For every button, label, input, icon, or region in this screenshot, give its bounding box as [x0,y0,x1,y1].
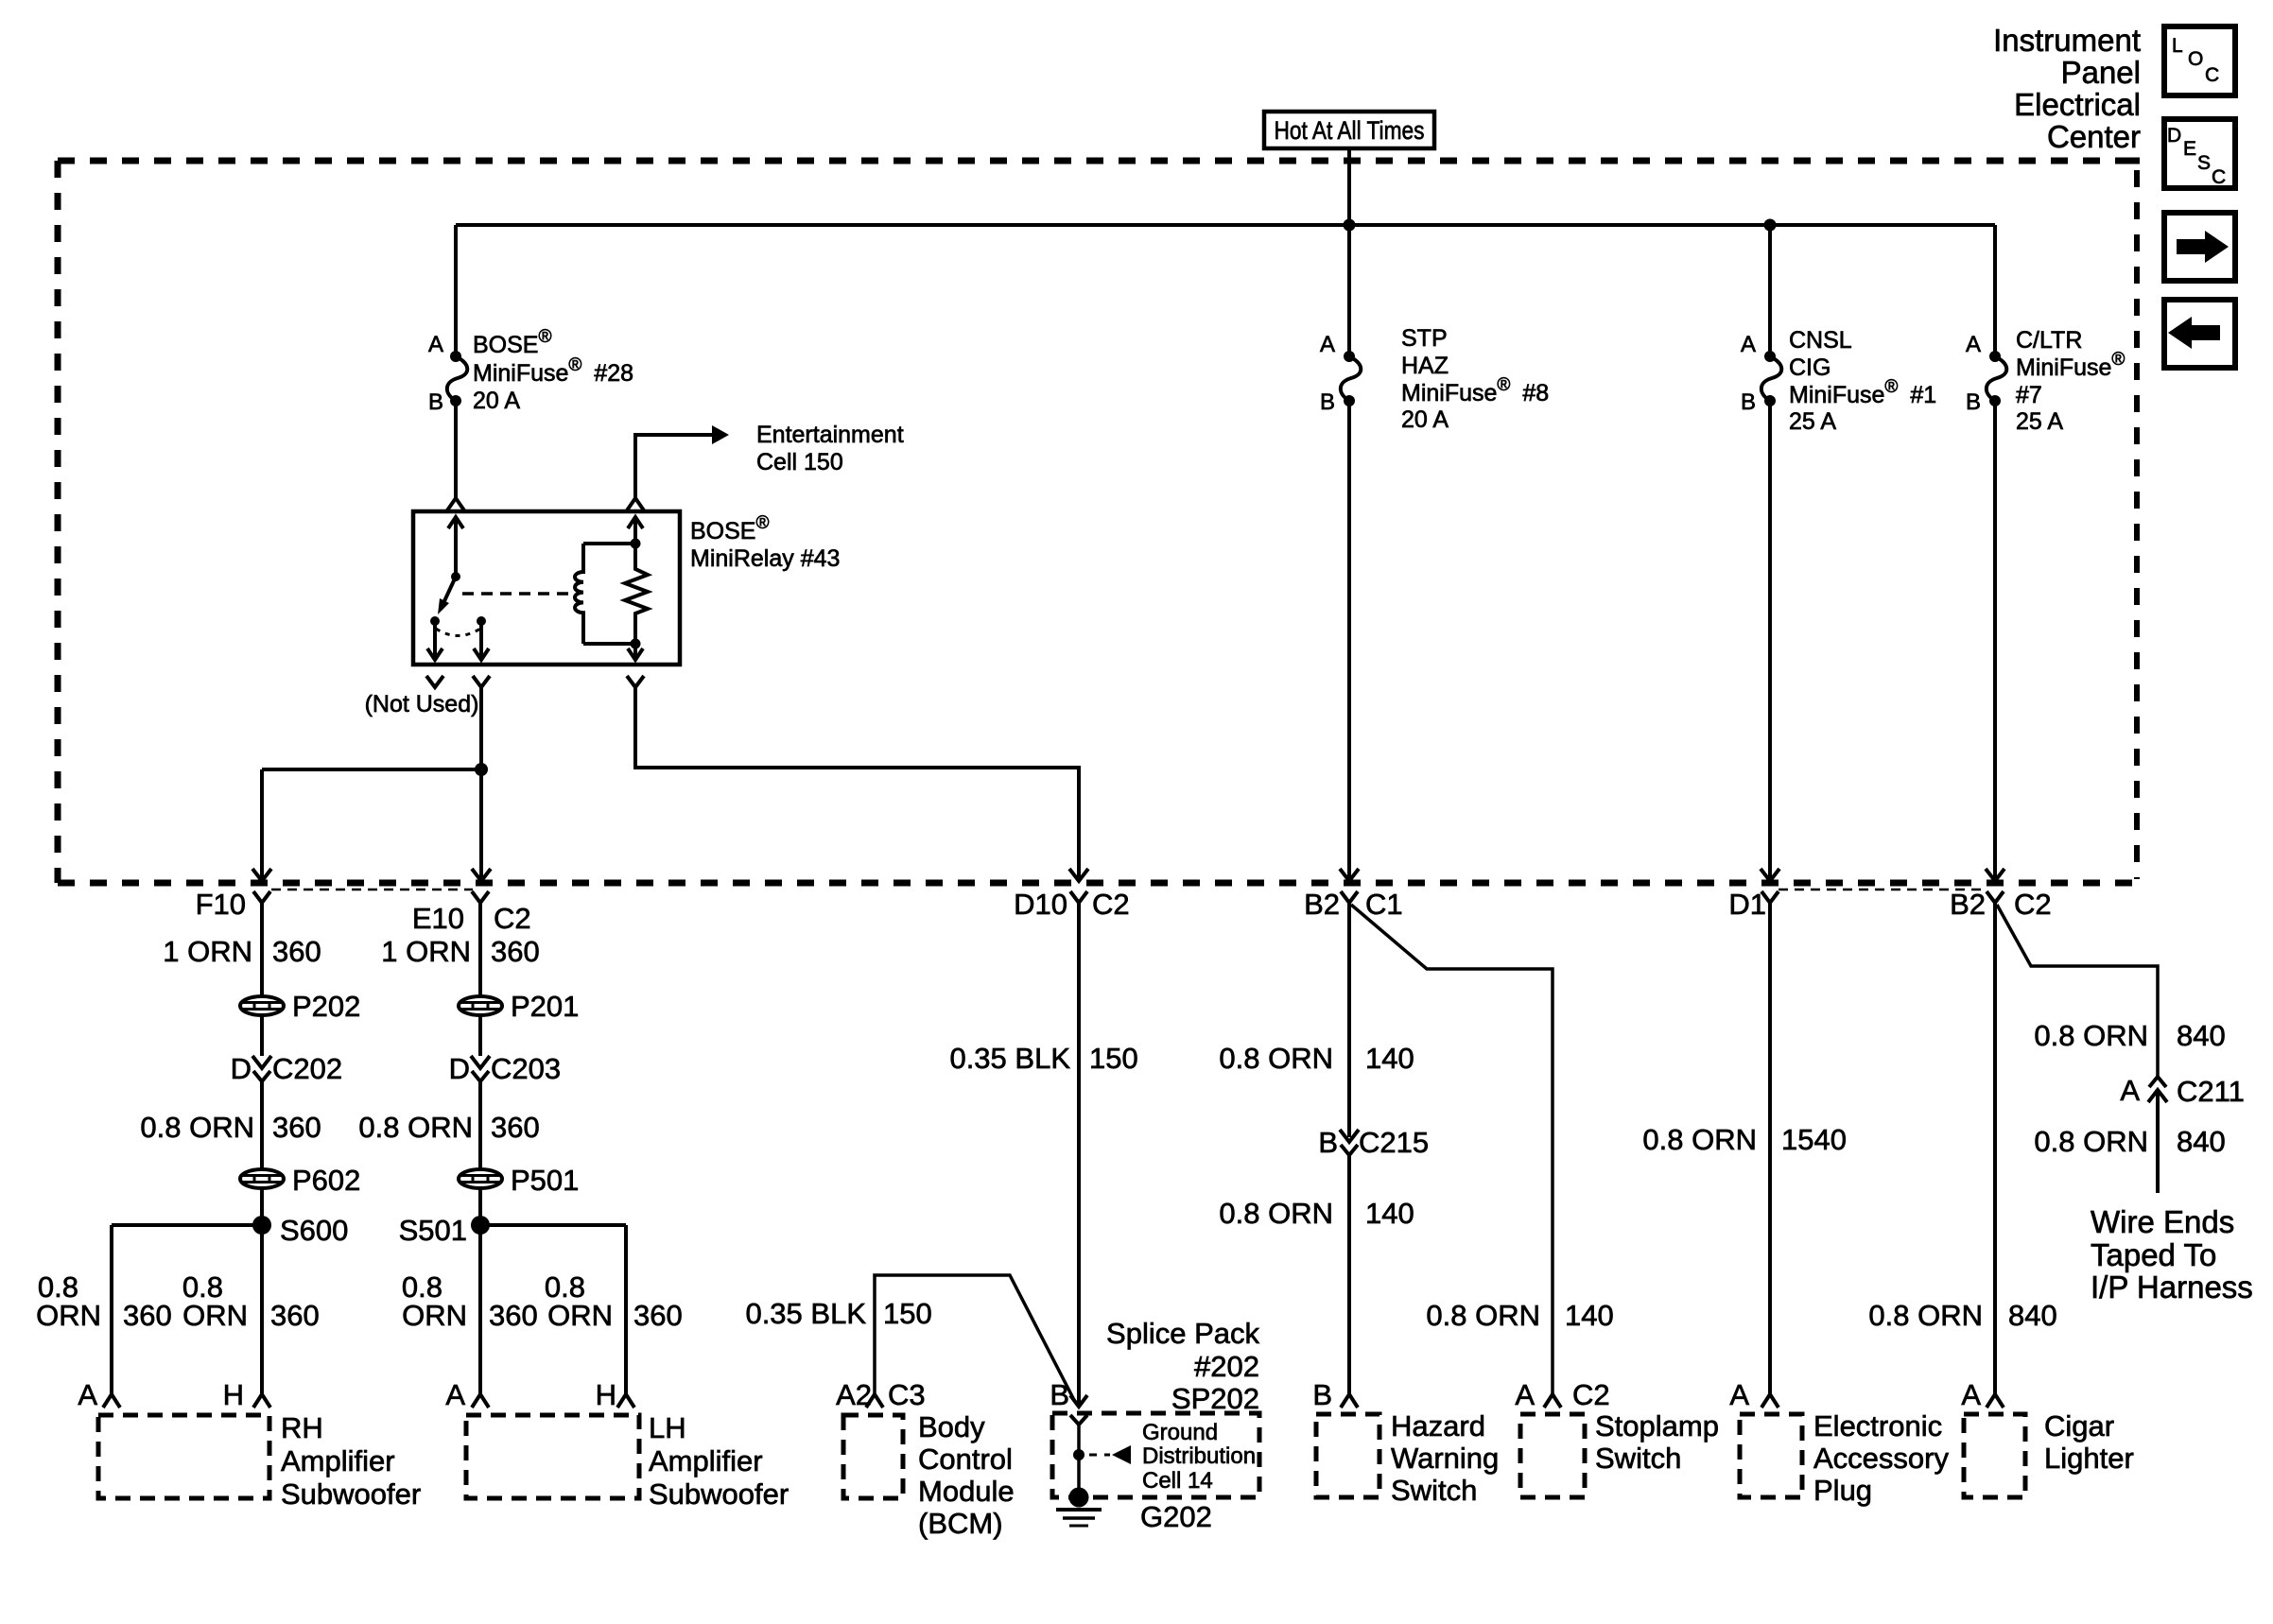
svg-text:360: 360 [489,1299,538,1332]
svg-text:0.8 ORN: 0.8 ORN [1868,1299,1983,1332]
svg-text:H: H [596,1378,616,1411]
svg-text:B: B [1312,1378,1332,1411]
svg-text:1540: 1540 [1781,1123,1847,1156]
svg-text:20 A: 20 A [473,388,520,414]
svg-text:P202: P202 [292,990,360,1023]
svg-text:A: A [78,1378,97,1411]
svg-text:E: E [2183,138,2196,160]
svg-text:MiniRelay #43: MiniRelay #43 [690,545,840,572]
svg-text:360: 360 [123,1299,172,1332]
svg-text:CIG: CIG [1789,354,1831,381]
svg-text:Body: Body [918,1410,985,1443]
svg-text:1 ORN: 1 ORN [163,935,252,968]
svg-text:A: A [1320,332,1335,357]
svg-text:840: 840 [2177,1125,2226,1158]
svg-text:25 A: 25 A [2016,408,2063,435]
svg-text:B: B [1741,389,1756,415]
svg-text:MiniFuse® #28: MiniFuse® #28 [473,355,633,387]
svg-text:A: A [1515,1378,1535,1411]
svg-text:C2: C2 [1092,888,1130,921]
svg-text:CNSL: CNSL [1789,327,1852,354]
svg-text:D: D [449,1052,470,1085]
svg-text:HAZ: HAZ [1401,353,1449,379]
svg-text:20 A: 20 A [1401,406,1449,433]
svg-text:Switch: Switch [1595,1442,1681,1475]
svg-text:A: A [1729,1378,1749,1411]
svg-text:840: 840 [2177,1019,2226,1052]
svg-text:B: B [1320,389,1335,415]
svg-text:0.35 BLK: 0.35 BLK [745,1297,866,1330]
svg-text:RH: RH [281,1411,323,1444]
svg-text:Cigar: Cigar [2044,1409,2114,1443]
svg-text:MiniFuse®: MiniFuse® [2016,350,2125,381]
svg-text:Control: Control [918,1443,1013,1476]
svg-text:360: 360 [633,1299,683,1332]
svg-text:360: 360 [270,1299,320,1332]
svg-text:Cell 14: Cell 14 [1142,1468,1213,1494]
svg-text:Hot At All Times: Hot At All Times [1275,116,1425,145]
svg-text:S600: S600 [280,1214,348,1247]
svg-text:C: C [2212,166,2226,188]
svg-text:H: H [223,1378,244,1411]
svg-text:0.8 ORN: 0.8 ORN [140,1111,254,1144]
svg-text:A: A [1966,332,1981,357]
svg-text:B2: B2 [1950,888,1986,921]
svg-text:Splice Pack: Splice Pack [1106,1317,1259,1350]
svg-text:Plug: Plug [1813,1474,1872,1507]
svg-text:Panel: Panel [2061,55,2141,90]
svg-text:MiniFuse® #1: MiniFuse® #1 [1789,377,1936,408]
svg-text:Instrument: Instrument [1993,23,2141,58]
svg-text:C202: C202 [272,1052,342,1085]
svg-text:I/P Harness: I/P Harness [2091,1270,2253,1304]
svg-text:1 ORN: 1 ORN [381,935,471,968]
svg-text:360: 360 [272,1111,321,1144]
svg-text:C211: C211 [2177,1075,2245,1108]
svg-text:150: 150 [1089,1042,1138,1075]
svg-text:B: B [1318,1126,1338,1159]
svg-text:360: 360 [491,1111,540,1144]
svg-text:A: A [1961,1378,1981,1411]
svg-text:A: A [1741,332,1756,357]
svg-text:Module: Module [918,1475,1015,1508]
svg-text:C2: C2 [494,902,531,935]
svg-text:C215: C215 [1359,1126,1429,1159]
svg-text:0.8 ORN: 0.8 ORN [358,1111,473,1144]
svg-text:Center: Center [2047,119,2141,154]
svg-text:P201: P201 [511,990,579,1023]
svg-text:#7: #7 [2016,382,2042,408]
svg-text:D1: D1 [1728,888,1766,921]
svg-text:A: A [2120,1074,2140,1107]
svg-text:(Not Used): (Not Used) [365,691,479,717]
svg-text:ORN: ORN [547,1299,613,1332]
svg-text:ORN: ORN [182,1299,248,1332]
svg-text:Amplifier: Amplifier [649,1444,763,1477]
svg-text:O: O [2188,48,2203,70]
svg-text:Ground: Ground [1142,1420,1218,1445]
svg-text:Stoplamp: Stoplamp [1595,1409,1719,1443]
svg-text:Accessory: Accessory [1813,1442,1949,1475]
svg-text:(BCM): (BCM) [918,1507,1003,1540]
svg-text:25 A: 25 A [1789,408,1836,435]
svg-text:Warning: Warning [1391,1442,1499,1475]
svg-text:140: 140 [1365,1197,1414,1230]
svg-text:LH: LH [649,1411,686,1444]
svg-text:0.8 ORN: 0.8 ORN [2034,1019,2148,1052]
svg-text:C2: C2 [1572,1378,1610,1411]
svg-text:0.8 ORN: 0.8 ORN [1642,1123,1757,1156]
svg-text:C2: C2 [2014,888,2052,921]
svg-text:0.8 ORN: 0.8 ORN [1426,1299,1540,1332]
svg-text:F10: F10 [196,888,246,921]
svg-text:C3: C3 [888,1378,926,1411]
svg-text:A: A [445,1378,465,1411]
svg-text:S501: S501 [399,1214,467,1247]
svg-text:150: 150 [883,1297,932,1330]
svg-text:C: C [2205,64,2219,86]
svg-text:Electronic: Electronic [1813,1409,1942,1443]
svg-text:Subwoofer: Subwoofer [649,1477,789,1511]
svg-text:B: B [1050,1378,1069,1411]
svg-text:Wire Ends: Wire Ends [2091,1204,2234,1239]
svg-text:360: 360 [491,935,540,968]
svg-text:Hazard: Hazard [1391,1409,1485,1443]
svg-text:P602: P602 [292,1164,360,1197]
svg-text:STP: STP [1401,325,1448,352]
svg-text:Entertainment: Entertainment [756,422,904,448]
svg-text:E10: E10 [412,902,464,935]
svg-text:P501: P501 [511,1164,579,1197]
svg-text:Distribution: Distribution [1142,1443,1256,1469]
svg-text:Cell 150: Cell 150 [756,449,843,475]
svg-text:C1: C1 [1365,888,1403,921]
svg-text:Lighter: Lighter [2044,1442,2134,1475]
svg-text:B: B [428,389,443,415]
svg-text:140: 140 [1565,1299,1614,1332]
svg-text:C/LTR: C/LTR [2016,327,2082,354]
svg-text:840: 840 [2008,1299,2057,1332]
svg-text:0.35 BLK: 0.35 BLK [949,1042,1070,1075]
svg-text:MiniFuse® #8: MiniFuse® #8 [1401,375,1549,406]
svg-text:0.8 ORN: 0.8 ORN [2034,1125,2148,1158]
svg-text:S: S [2197,152,2211,174]
svg-text:ORN: ORN [402,1299,467,1332]
svg-text:A: A [428,332,443,357]
svg-text:Switch: Switch [1391,1474,1477,1507]
svg-text:0.8 ORN: 0.8 ORN [1219,1197,1333,1230]
svg-text:G202: G202 [1140,1500,1212,1533]
svg-text:#202: #202 [1194,1350,1259,1383]
svg-text:B2: B2 [1304,888,1340,921]
svg-text:L: L [2172,35,2183,57]
svg-text:ORN: ORN [36,1299,101,1332]
svg-text:Amplifier: Amplifier [281,1444,395,1477]
svg-text:0.8 ORN: 0.8 ORN [1219,1042,1333,1075]
svg-text:D: D [231,1052,252,1085]
svg-text:C203: C203 [491,1052,561,1085]
svg-text:Subwoofer: Subwoofer [281,1477,421,1511]
svg-text:B: B [1966,389,1981,415]
svg-text:Taped To: Taped To [2091,1237,2216,1272]
svg-text:D10: D10 [1014,888,1067,921]
svg-text:360: 360 [272,935,321,968]
svg-text:SP202: SP202 [1171,1382,1259,1415]
svg-text:D: D [2167,125,2181,147]
svg-text:Electrical: Electrical [2014,87,2141,122]
svg-text:140: 140 [1365,1042,1414,1075]
